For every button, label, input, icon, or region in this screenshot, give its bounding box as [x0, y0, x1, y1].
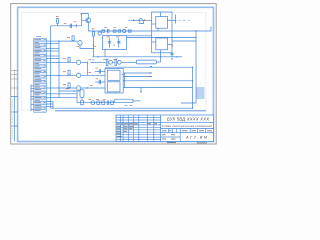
inputs to center block	[95, 68, 105, 84]
label marks	[125, 104, 133, 106]
connector table X1	[34, 37, 47, 113]
left grid horizontals	[116, 118, 161, 140]
inter-stage vertical	[86, 62, 88, 75]
cap branch below block	[171, 45, 183, 60]
stub riser	[52, 102, 54, 109]
right riser wire	[181, 27, 211, 104]
transistor pair inside	[109, 38, 111, 48]
resistor R5	[113, 30, 116, 32]
sheet outline	[11, 4, 217, 144]
outputs of center block	[122, 72, 193, 87]
wire from box upper	[127, 35, 152, 37]
tiny header texts	[117, 124, 212, 139]
transistor VT1	[82, 18, 91, 23]
main vertical bus	[58, 41, 60, 98]
row divider lines	[34, 41, 47, 110]
right vertical bus	[192, 67, 194, 108]
resistor R4	[102, 30, 105, 32]
resistor R7	[128, 30, 131, 32]
center block A2	[105, 68, 123, 93]
amplifier stage 4	[59, 83, 105, 90]
left vertical wire	[50, 26, 52, 108]
wire block to riser	[172, 40, 196, 42]
bottom bus 1	[51, 107, 193, 109]
component row	[90, 59, 136, 65]
svg-text:БУК 5ВД.ХХХХ ХХХ: БУК 5ВД.ХХХХ ХХХ	[167, 117, 209, 122]
resistor R6	[118, 30, 121, 32]
pin stubs	[196, 88, 205, 98]
collector loop	[82, 14, 89, 18]
arrow mark	[98, 56, 101, 58]
low bus	[105, 66, 193, 68]
long resistor block	[136, 60, 156, 64]
wire from box lower	[127, 36, 197, 38]
top rail wire	[51, 25, 82, 27]
left margin stamp boxes upper (gray)	[11, 70, 17, 96]
emitter drop	[87, 23, 89, 31]
svg-text:Схема электрическая соединений: Схема электрическая соединений	[162, 124, 213, 128]
amplifier stage 1	[59, 36, 94, 49]
output chain	[77, 100, 115, 105]
faint plot boundary	[22, 13, 206, 111]
relay unit A1	[152, 12, 172, 57]
ground rail left of table	[31, 85, 34, 112]
relay K2	[156, 38, 168, 50]
transistor VT3	[123, 29, 126, 32]
long mid bus	[93, 56, 173, 58]
capacitor C1	[70, 22, 76, 28]
component bus	[88, 30, 196, 32]
diode unit 1	[106, 59, 108, 65]
left margin stamp boxes lower (blue)	[11, 97, 17, 142]
amplifier stage 2	[59, 57, 95, 64]
label R2	[64, 23, 67, 25]
lit/mass/scale cells	[161, 129, 214, 142]
feedback node	[81, 13, 82, 26]
transistor VT2	[98, 32, 101, 35]
resistor R3 hanging	[92, 29, 97, 57]
relay K1	[156, 17, 168, 29]
box bottom lead	[104, 50, 106, 57]
amplifier stage 3	[59, 70, 105, 77]
input relay contact	[128, 19, 152, 24]
svg-text:АГ2.ВМ: АГ2.ВМ	[185, 136, 208, 140]
stub to coil vertical	[46, 93, 77, 95]
resistor R1	[56, 16, 59, 25]
down arrow	[140, 88, 142, 94]
left grid verticals	[121, 115, 154, 142]
wire stubs from connector	[46, 41, 59, 107]
svg-text:Формат: Формат	[197, 141, 208, 145]
drawing frame	[18, 7, 214, 141]
bottom bus 2	[55, 110, 206, 112]
title block	[116, 115, 214, 142]
output lead with label	[172, 15, 190, 24]
sub-module box	[103, 36, 127, 50]
junction dots	[58, 30, 196, 109]
diode unit 2	[115, 59, 117, 65]
tiny row text	[35, 40, 46, 111]
long output resistor	[115, 99, 133, 103]
right section rows	[161, 121, 214, 123]
junction bump	[150, 66, 153, 67]
table header label	[36, 36, 41, 38]
format note below frame	[167, 142, 176, 144]
label dashes	[105, 27, 128, 29]
capacitor C2	[108, 29, 109, 33]
relay coil K3	[59, 89, 84, 105]
